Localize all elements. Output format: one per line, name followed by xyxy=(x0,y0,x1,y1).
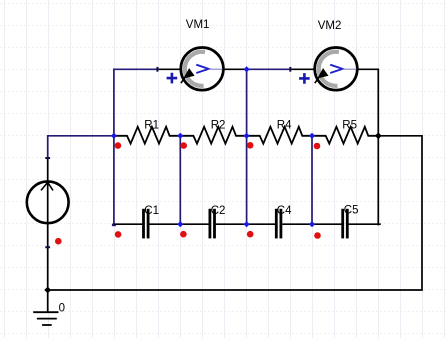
svg-text:R1: R1 xyxy=(144,120,159,132)
wire vertical x=180.3 from resistor bus to capacitor bus xyxy=(179,136,181,224)
junction node C4-C5 (blue) xyxy=(309,221,315,227)
pin current source top with end tick xyxy=(45,157,50,182)
junction node ground (black) xyxy=(44,287,51,294)
pin VM1 right (black) xyxy=(223,68,247,70)
probe dot (red) near current source xyxy=(55,238,62,245)
capacitor C2 xyxy=(180,209,246,239)
junction node R5 right (black) xyxy=(375,132,382,139)
svg-text:VM1: VM1 xyxy=(186,19,210,31)
svg-text:VM2: VM2 xyxy=(318,20,342,32)
resistor R1 xyxy=(114,127,180,144)
probe dot (red) at node 3 capacitor row xyxy=(247,231,254,238)
ground xyxy=(33,290,58,325)
wire left vertical x=114 from VM1 wire down to capacitor bus xyxy=(113,69,115,225)
capacitor C1 xyxy=(114,209,180,239)
resistor R4 xyxy=(247,127,312,144)
probe dot (red) at node 3 resistor row xyxy=(247,142,254,149)
wire vertical x=378.3 from resistor bus to capacitor bus xyxy=(377,136,379,226)
svg-text:0: 0 xyxy=(59,303,65,315)
pin VM2 right (black) to top-right corner xyxy=(357,69,378,136)
current source I1 xyxy=(27,181,69,223)
svg-text:C1: C1 xyxy=(144,205,159,217)
pin current source bottom with end tick, wire to ground junction xyxy=(45,223,50,291)
wire horizontal from left rail to R1 junction xyxy=(48,135,114,137)
wire vertical x=312 from resistor bus to capacitor bus xyxy=(311,136,313,224)
probe dot (red) at node 1 capacitor row xyxy=(115,231,122,238)
wire vertical x=246.6 from top junction to capacitor bus xyxy=(246,69,248,224)
junction node R1-R2 (blue) xyxy=(177,133,183,139)
pin VM2 left (black) with end tick xyxy=(289,67,314,72)
wire from VM1 right junction to VM2 left pin xyxy=(247,68,291,70)
voltmeter VM2 xyxy=(299,48,357,91)
junction node C1-C2 (blue) xyxy=(177,221,183,227)
wire bottom horizontal xyxy=(48,289,423,291)
probe dot (red) at node 4 capacitor row xyxy=(314,232,321,239)
svg-text:R4: R4 xyxy=(277,120,292,132)
capacitor C5 xyxy=(312,209,381,239)
resistor R5 xyxy=(312,127,378,144)
wire right rail vertical xyxy=(421,135,423,290)
svg-text:R2: R2 xyxy=(211,120,226,132)
junction node R4-R5 (blue) xyxy=(309,133,315,139)
wire top-left horizontal (node to VM1 left pin) xyxy=(113,68,157,70)
probe dot (red) at node 1 resistor row xyxy=(115,142,122,149)
svg-text:C4: C4 xyxy=(277,205,292,217)
capacitor C4 xyxy=(247,209,312,239)
voltmeter VM1 xyxy=(167,48,224,91)
junction node R1 left (blue) xyxy=(111,133,117,139)
probe dot (red) at node 2 capacitor row xyxy=(180,231,187,238)
resistor R2 xyxy=(180,127,246,144)
junction node C2-C4 (blue) xyxy=(244,221,250,227)
junction node R2-R4 (blue) xyxy=(244,133,250,139)
pin VM1 left (black) with end tick xyxy=(156,67,181,72)
wire left rail vertical down to current source pin xyxy=(47,135,49,158)
wire from R5 junction right to right rail xyxy=(378,135,422,137)
wire end marker at capacitor bus corner xyxy=(112,224,116,227)
probe dot (red) at node 2 resistor row xyxy=(180,142,187,149)
svg-text:C5: C5 xyxy=(344,205,359,217)
svg-text:R5: R5 xyxy=(342,120,357,132)
junction node at VM1 right (blue) xyxy=(244,66,250,72)
probe dot (red) at node 4 resistor row xyxy=(314,143,321,150)
svg-text:C2: C2 xyxy=(211,205,226,217)
